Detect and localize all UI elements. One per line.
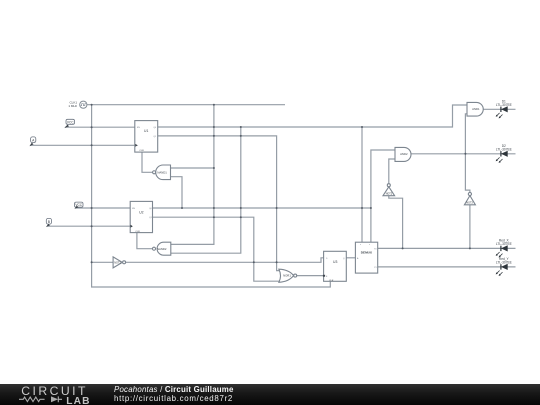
junction (91.6,127.2) xyxy=(91,126,93,128)
junction (240.8,217.2) xyxy=(240,216,242,218)
junction (240.8,208) xyxy=(240,207,242,209)
junction (213.9,208) xyxy=(213,207,215,209)
junction (240.8,127) xyxy=(240,126,242,128)
junction (469.9,248.4) xyxy=(469,247,471,249)
svg-text:NOR1: NOR1 xyxy=(283,274,291,278)
wire U1 Q0 branch to DEMUX select xyxy=(361,127,363,242)
led D2 xyxy=(496,144,512,163)
svg-text:LTL-307EE: LTL-307EE xyxy=(496,242,512,246)
counter U2 xyxy=(130,201,152,232)
counter U1 xyxy=(135,121,158,153)
flag VCC (bottom) xyxy=(74,202,83,209)
nand gate NAND2 (facing left) xyxy=(157,242,171,255)
junction (91.6,226.2) xyxy=(91,225,93,227)
svg-text:VCC: VCC xyxy=(67,120,74,124)
clock pin wedge U1 xyxy=(135,144,137,147)
wire NOR1 output to U3 input 2 xyxy=(297,275,324,277)
junction (240.8,135.9) xyxy=(240,135,242,137)
junction (362,127) xyxy=(361,126,363,128)
wire U2 Q1 row down to NOR1 input 2 xyxy=(153,217,280,281)
wire U3 output to DEMUX xyxy=(346,257,355,259)
junction (91.6,104.7) xyxy=(91,104,93,106)
svg-text:1 MHz: 1 MHz xyxy=(68,104,77,108)
led Red_X xyxy=(496,239,512,258)
junction (213.9,217.2) xyxy=(213,216,215,218)
junction (276.6,262.3) xyxy=(276,261,278,263)
nand gate NAND1 (facing left) xyxy=(156,165,171,180)
junction dots group xyxy=(91,104,471,264)
pin name labels xyxy=(132,127,377,278)
wire NAND1 input 2 xyxy=(170,177,182,208)
register U3 xyxy=(324,251,347,281)
junction (91.6,208) xyxy=(91,207,93,209)
wire VCC2 row to DEMUX select xyxy=(76,207,371,209)
junction (213.9,135.9) xyxy=(213,135,215,137)
junction (253.8,262.3) xyxy=(253,261,255,263)
flag A xyxy=(29,137,35,146)
clock source CLK1 xyxy=(80,101,87,108)
wire clock branch down to NAND2 input 1 xyxy=(171,105,214,245)
and gate AND2 xyxy=(395,147,411,161)
junction (276.6,208) xyxy=(276,207,278,209)
wire branch to NAND2 input 2 xyxy=(171,127,241,253)
wire NOT2 input from Y0 row xyxy=(389,196,403,249)
wire input A row xyxy=(30,144,135,146)
junction (213.9,168) xyxy=(213,167,215,169)
junction (91.6,145.3) xyxy=(91,144,93,146)
inverter NOT3 (facing up) xyxy=(464,196,475,205)
svg-text:CLR: CLR xyxy=(329,280,334,282)
wire clock row xyxy=(87,104,285,106)
flag B xyxy=(46,218,52,227)
wire DEMUX Y1 row to LED Red_Y xyxy=(378,266,516,268)
led Red_Y xyxy=(496,257,512,276)
inverter NOT2 (facing up) xyxy=(383,187,395,196)
svg-text:NAND1: NAND1 xyxy=(157,170,167,174)
wire U1 Q1 row down to NOR1 input 1 xyxy=(158,136,281,271)
svg-text:U3: U3 xyxy=(333,260,337,264)
wire U2 CLR to NAND2 output xyxy=(137,233,153,249)
svg-text:LTL-307EE: LTL-307EE xyxy=(496,261,512,265)
svg-text:NOT3: NOT3 xyxy=(466,201,473,204)
inverter NOT1 xyxy=(113,257,122,268)
and gate AND1 xyxy=(467,102,483,116)
junction (402.6,248.4) xyxy=(402,247,404,249)
wire NOT1 input stub xyxy=(92,261,113,263)
wire DEMUX Y0 row to LED Red_X xyxy=(378,247,516,249)
wire AND2 input 1 down to DEMUX select xyxy=(371,150,395,242)
demultiplexer U4 DEMUX xyxy=(355,242,377,273)
wire AND2 output row to LED D2 xyxy=(411,153,516,155)
wire VCC1 row xyxy=(65,126,135,128)
junction (213.9,127) xyxy=(213,126,215,128)
svg-text:NAND2: NAND2 xyxy=(157,247,167,251)
clock waveform glyph xyxy=(81,104,86,106)
svg-text:CLR: CLR xyxy=(135,231,140,233)
logo diode triangle xyxy=(51,396,58,402)
svg-text:NOT1: NOT1 xyxy=(114,261,121,264)
nor gate NOR1 xyxy=(279,269,294,282)
svg-text:LTL-307EE: LTL-307EE xyxy=(496,147,512,151)
svg-text:s: s xyxy=(360,244,361,246)
wire AND1 input 2 to NOT3 xyxy=(465,114,470,193)
svg-text:VCC: VCC xyxy=(75,203,82,207)
led D1 xyxy=(496,100,512,119)
junction (370.9,208) xyxy=(370,207,372,209)
svg-text:s: s xyxy=(369,244,370,246)
junction (91.6,262.3) xyxy=(91,261,93,263)
wire NAND1 output to U1 CLR xyxy=(142,152,153,173)
wire left vertical rail to U3 CLR xyxy=(92,105,331,287)
wire input B row xyxy=(47,225,130,227)
junction (213.9,104.7) xyxy=(213,104,215,106)
wire AND2 input 2 to NOT2 xyxy=(389,159,395,184)
junction (362,208) xyxy=(361,207,363,209)
wire U1 Q0 row to AND1 xyxy=(158,105,467,127)
svg-text:CLR: CLR xyxy=(139,150,144,152)
logo resistor zigzag and diode cathode bar xyxy=(19,396,62,402)
wire NOT1 output to U3 input 1 xyxy=(126,258,324,263)
svg-text:NOT2: NOT2 xyxy=(386,193,393,196)
svg-text:LAB: LAB xyxy=(66,396,90,405)
svg-text:AND2: AND2 xyxy=(400,152,408,156)
wire NAND1 input 1 xyxy=(170,167,214,169)
wire AND1 output row to LED D1 xyxy=(483,108,515,110)
wire NOT3 input from Y0 row xyxy=(469,205,471,249)
svg-text:DEMUX: DEMUX xyxy=(361,251,373,255)
footer bar xyxy=(0,384,540,405)
svg-text:U2: U2 xyxy=(139,211,143,215)
component name labels xyxy=(68,101,480,283)
junction (465.4,153.8) xyxy=(464,153,466,155)
flag VCC (top) xyxy=(64,119,74,128)
junction (182,208) xyxy=(181,207,183,209)
svg-text:LTL-307EE: LTL-307EE xyxy=(496,103,512,107)
svg-text:AND1: AND1 xyxy=(472,107,480,111)
clock pin wedge U2 xyxy=(131,225,133,228)
svg-text:U1: U1 xyxy=(144,129,148,133)
